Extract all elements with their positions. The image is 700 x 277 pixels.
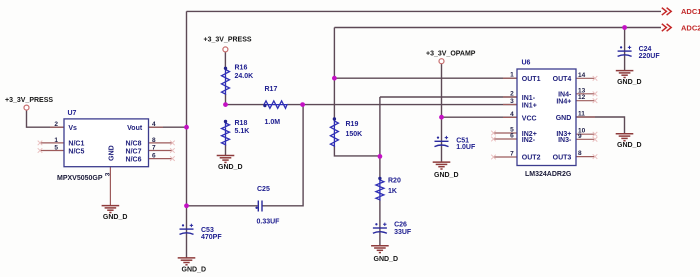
svg-text:OUT4: OUT4 [553, 76, 572, 83]
svg-text:2: 2 [510, 91, 514, 98]
svg-text:0.33UF: 0.33UF [257, 218, 281, 225]
svg-text:7: 7 [152, 144, 156, 151]
svg-text:N/C1: N/C1 [68, 141, 84, 148]
svg-text:GND_D: GND_D [218, 164, 243, 171]
svg-text:8: 8 [152, 137, 156, 144]
svg-text:GND_D: GND_D [182, 267, 207, 274]
svg-text:Vs: Vs [68, 125, 77, 132]
svg-text:ADC2: ADC2 [681, 23, 700, 32]
svg-text:+3_3V_OPAMP: +3_3V_OPAMP [426, 51, 476, 58]
svg-text:1K: 1K [388, 188, 397, 195]
svg-text:N/C8: N/C8 [126, 141, 142, 148]
svg-text:N/C7: N/C7 [126, 148, 142, 155]
svg-text:GND: GND [556, 115, 572, 122]
svg-text:C25: C25 [257, 186, 270, 193]
svg-text:GND_D: GND_D [103, 214, 128, 221]
svg-text:2: 2 [54, 121, 58, 128]
svg-text:IN4+: IN4+ [556, 99, 571, 106]
svg-text:+3_3V_PRESS: +3_3V_PRESS [204, 37, 252, 44]
svg-text:6: 6 [510, 133, 514, 140]
svg-text:1.0UF: 1.0UF [456, 144, 476, 151]
svg-text:U6: U6 [522, 60, 531, 67]
svg-text:4: 4 [152, 121, 156, 128]
svg-text:+3_3V_PRESS: +3_3V_PRESS [5, 97, 53, 104]
svg-text:N/C6: N/C6 [126, 156, 142, 163]
svg-text:VCC: VCC [522, 115, 537, 122]
svg-text:ADC1: ADC1 [681, 7, 700, 16]
svg-text:GND_D: GND_D [617, 142, 642, 149]
svg-text:IN2-: IN2- [522, 137, 536, 144]
svg-text:IN1-: IN1- [522, 95, 536, 102]
svg-text:470PF: 470PF [201, 234, 222, 241]
svg-text:Vout: Vout [127, 125, 143, 132]
svg-text:GND: GND [109, 145, 116, 161]
svg-text:MPXV5050GP: MPXV5050GP [57, 175, 103, 182]
svg-text:11: 11 [578, 111, 585, 118]
svg-text:14: 14 [578, 72, 586, 79]
svg-text:IN4-: IN4- [558, 92, 572, 99]
svg-text:GND_D: GND_D [434, 172, 459, 179]
svg-text:R18: R18 [235, 120, 248, 127]
svg-text:1: 1 [510, 72, 514, 79]
svg-text:OUT2: OUT2 [522, 155, 541, 162]
svg-text:12: 12 [578, 94, 586, 101]
svg-text:9: 9 [578, 133, 582, 140]
svg-text:8: 8 [578, 150, 582, 157]
svg-text:5: 5 [54, 144, 58, 151]
svg-text:6: 6 [152, 153, 156, 160]
svg-text:7: 7 [510, 151, 514, 158]
svg-text:GND_D: GND_D [617, 79, 642, 86]
svg-text:220UF: 220UF [639, 53, 661, 60]
svg-text:1: 1 [54, 137, 58, 144]
svg-text:1.0M: 1.0M [265, 119, 281, 126]
svg-text:IN1+: IN1+ [522, 102, 537, 109]
svg-text:R17: R17 [265, 86, 278, 93]
svg-text:5.1K: 5.1K [235, 128, 250, 135]
svg-text:24.0K: 24.0K [235, 73, 254, 80]
svg-text:GND_D: GND_D [374, 256, 399, 263]
svg-text:OUT3: OUT3 [553, 154, 572, 161]
svg-text:OUT1: OUT1 [522, 76, 541, 83]
svg-text:R19: R19 [346, 121, 359, 128]
svg-text:33UF: 33UF [394, 229, 412, 236]
svg-text:LM324ADR2G: LM324ADR2G [525, 171, 572, 178]
svg-text:C26: C26 [394, 221, 407, 228]
svg-text:N/C5: N/C5 [68, 148, 84, 155]
svg-text:U7: U7 [68, 110, 77, 117]
svg-text:3: 3 [105, 172, 112, 176]
svg-text:IN3-: IN3- [558, 137, 572, 144]
svg-text:3: 3 [510, 98, 514, 105]
svg-text:R16: R16 [235, 65, 248, 72]
svg-text:4: 4 [510, 111, 514, 118]
svg-text:150K: 150K [346, 131, 363, 138]
svg-text:R20: R20 [388, 178, 401, 185]
